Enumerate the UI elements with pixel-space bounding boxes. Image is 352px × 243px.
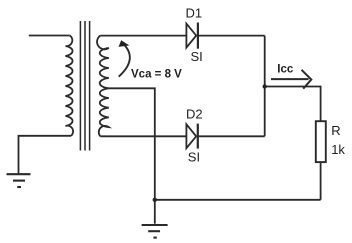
- transformer core: [80, 21, 89, 151]
- svg-text:D2: D2: [186, 106, 203, 121]
- wire vertical D1/D2 join: [264, 36, 266, 137]
- node junction dot: [263, 84, 267, 88]
- wire secondary top lead to D1: [100, 35, 186, 37]
- svg-text:SI: SI: [191, 49, 203, 64]
- Vca arrow: [119, 43, 130, 77]
- svg-text:1k: 1k: [331, 142, 345, 157]
- resistor R: [316, 121, 326, 162]
- diode D1: [186, 23, 198, 49]
- wire ground stem center: [154, 200, 156, 224]
- svg-text:D1: D1: [186, 5, 203, 20]
- wire primary top lead: [29, 35, 70, 37]
- svg-text:Icc: Icc: [277, 63, 294, 75]
- wire resistor bottom to rail: [320, 162, 322, 200]
- wire D1 cathode to corner: [199, 35, 265, 37]
- ground (left, primary): [7, 174, 31, 187]
- transformer secondary winding upper half: [97, 36, 109, 89]
- diode D2: [186, 124, 197, 149]
- wire junction to resistor top: [265, 87, 321, 122]
- wire D2 cathode to vertical: [199, 135, 265, 137]
- svg-text:Vca = 8 V: Vca = 8 V: [131, 68, 182, 80]
- node center-tap ground dot: [153, 198, 157, 202]
- svg-text:SI: SI: [188, 150, 200, 165]
- wire center tap: [109, 88, 155, 200]
- wire secondary bottom lead to D2: [100, 135, 186, 137]
- ground (center tap): [142, 225, 168, 238]
- transformer primary winding: [66, 36, 74, 136]
- transformer secondary winding lower half: [99, 88, 109, 136]
- svg-text:R: R: [331, 123, 340, 138]
- Icc arrow: [271, 70, 311, 89]
- wire primary bottom lead: [19, 136, 72, 174]
- wire bottom rail: [155, 199, 321, 201]
